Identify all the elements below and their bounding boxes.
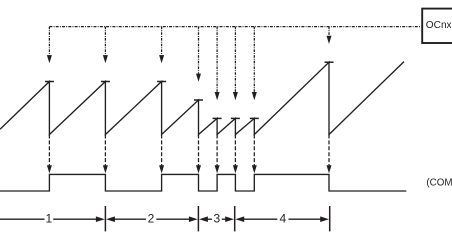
- svg-text:(COMnx1:0 = 2): (COMnx1:0 = 2): [426, 177, 452, 188]
- svg-text:1: 1: [45, 212, 52, 226]
- svg-text:OCnx Interrupt Flag Set: OCnx Interrupt Flag Set: [426, 20, 452, 31]
- svg-text:4: 4: [280, 212, 287, 226]
- svg-text:3: 3: [213, 212, 220, 226]
- svg-text:2: 2: [148, 212, 155, 226]
